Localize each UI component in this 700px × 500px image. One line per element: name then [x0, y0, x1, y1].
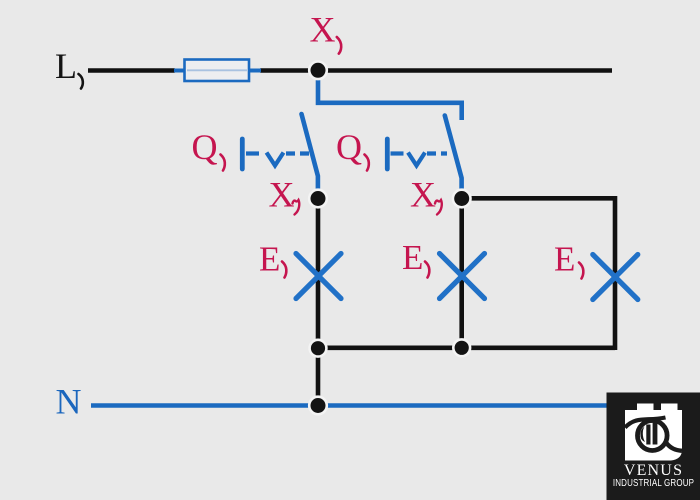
lamp E1 left — [296, 254, 341, 299]
wire L1 phase line left segment — [88, 68, 175, 73]
svg-text:E: E — [402, 238, 423, 277]
svg-text:L: L — [55, 46, 77, 86]
lamp E1 middle — [440, 254, 485, 299]
svg-text:Q: Q — [336, 127, 362, 167]
wire L1 phase line right segment — [260, 68, 612, 73]
node neutral junction dot — [309, 397, 327, 415]
svg-text:N: N — [56, 382, 82, 422]
logo castle emblem white body — [625, 404, 682, 461]
svg-text:E: E — [554, 240, 575, 279]
switch Q1 right actuator v notch — [408, 153, 425, 166]
label Q1 right — [336, 127, 369, 171]
wire black right side of loop — [613, 196, 618, 350]
label E1 left — [259, 240, 286, 279]
logo Venus box — [607, 393, 700, 500]
switch Q1 left actuator bar — [240, 139, 245, 169]
label X2 right — [410, 175, 442, 215]
wire N neutral line — [91, 403, 607, 407]
switch Q1 left actuator dashed link segment 2 — [286, 151, 310, 155]
logo monogram bar l — [653, 422, 658, 445]
wire black drop to neutral — [316, 348, 321, 406]
switch Q1 left lever — [302, 114, 318, 196]
node bottom-left junction dot — [310, 340, 327, 357]
logo swirl ring — [638, 421, 668, 451]
switch Q1 right actuator bar — [385, 139, 390, 169]
logo swirl tail — [666, 443, 682, 451]
label E1 right — [554, 240, 583, 279]
wire blue feed from node X1 down and across — [318, 72, 462, 103]
svg-text:E: E — [259, 240, 280, 279]
label Q1 left — [192, 127, 225, 171]
node bottom-mid junction dot — [453, 339, 470, 356]
wire blue fixed contact stub right switch — [459, 101, 464, 121]
fuse F1 body — [185, 60, 250, 82]
label X2 left — [269, 175, 300, 215]
logo swirl wave top — [625, 418, 666, 428]
label X1 — [310, 10, 342, 54]
svg-text:X: X — [410, 175, 436, 215]
logo monogram bar i — [646, 425, 650, 445]
switch Q1 left actuator v notch — [267, 153, 284, 166]
label E1 middle — [402, 238, 429, 278]
wire black top of right loop — [462, 196, 615, 201]
fuse F1 inner element line — [187, 69, 247, 71]
label L1 — [55, 46, 83, 89]
wire black branch left vertical X2 to junction — [316, 198, 321, 348]
switch Q1 left actuator dashed link segment 1 — [246, 151, 262, 155]
node X2 left junction dot — [309, 190, 327, 208]
svg-text:Q: Q — [192, 127, 218, 167]
switch Q1 right actuator dashed link segment 1 — [391, 151, 406, 155]
lamp E1 right — [593, 255, 638, 300]
switch Q1 right lever — [445, 116, 462, 197]
node X2 right junction dot — [453, 190, 471, 208]
switch Q1 right actuator dashed link segment 2 — [427, 151, 447, 155]
wire black bottom bus — [318, 345, 615, 350]
fuse F1 lead left — [174, 69, 185, 73]
svg-text:X: X — [310, 10, 336, 50]
node X1 junction dot — [309, 62, 327, 80]
wire black branch mid vertical X2 to junction — [459, 198, 464, 348]
svg-text:INDUSTRIAL GROUP: INDUSTRIAL GROUP — [613, 477, 694, 488]
logo monogram curl — [640, 427, 645, 443]
fuse F1 lead right — [248, 69, 261, 73]
svg-text:X: X — [269, 175, 295, 215]
